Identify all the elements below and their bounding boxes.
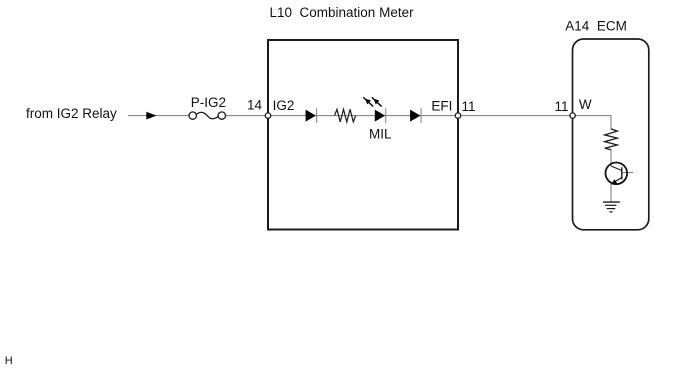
svg-text:IG2: IG2 bbox=[273, 98, 295, 113]
svg-text:11: 11 bbox=[555, 99, 569, 114]
svg-text:A14 ECM: A14 ECM bbox=[565, 19, 627, 34]
svg-text:W: W bbox=[579, 97, 592, 112]
svg-text:L10 Combination Meter: L10 Combination Meter bbox=[270, 5, 415, 20]
svg-text:P-IG2: P-IG2 bbox=[191, 95, 226, 110]
svg-text:EFI: EFI bbox=[431, 99, 452, 114]
svg-text:from IG2 Relay: from IG2 Relay bbox=[26, 106, 117, 121]
svg-text:MIL: MIL bbox=[369, 127, 392, 142]
svg-text:H: H bbox=[5, 355, 13, 367]
svg-text:14: 14 bbox=[247, 98, 263, 113]
svg-text:11: 11 bbox=[462, 99, 476, 114]
